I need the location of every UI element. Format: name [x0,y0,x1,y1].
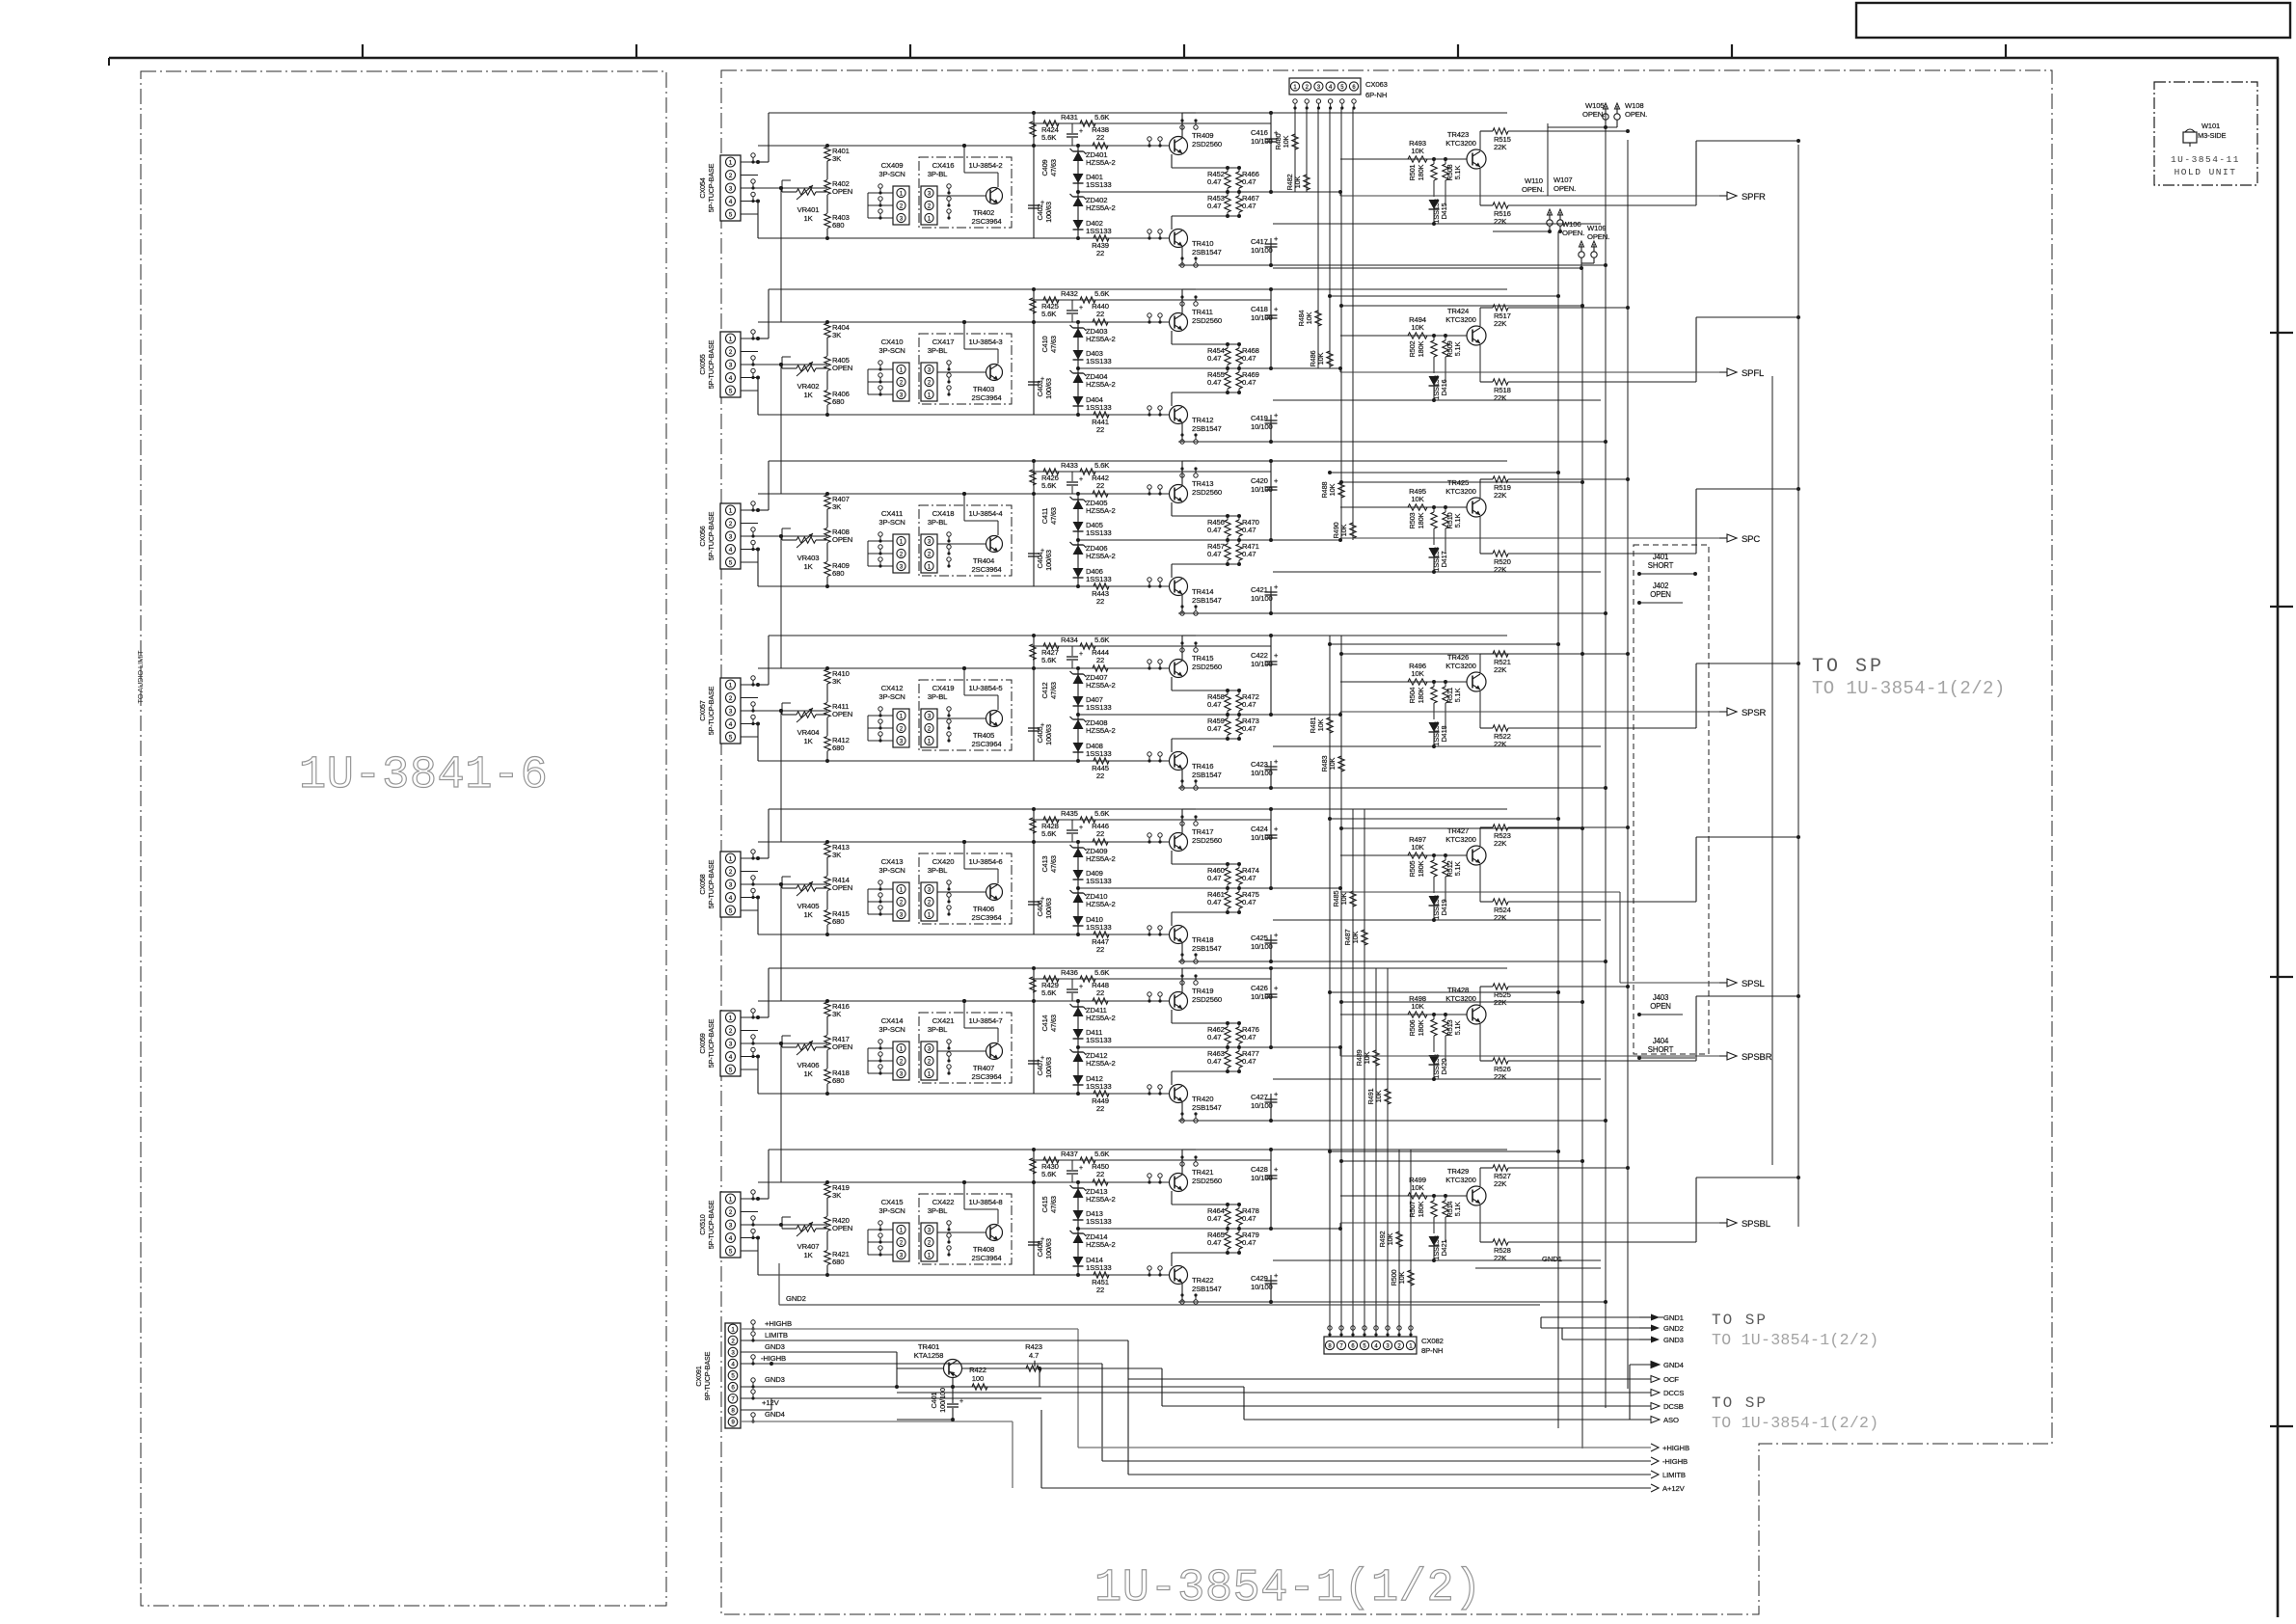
svg-text:GND3: GND3 [765,1342,785,1351]
svg-text:OCF: OCF [1663,1375,1679,1384]
mid vertical [1033,113,1035,238]
zener ZD405 HZS5A-2 [1073,500,1084,509]
svg-text:TR413: TR413 [1192,479,1213,488]
svg-text:R433: R433 [1061,461,1078,470]
collector wire up [1181,113,1183,137]
bus verticals to CX082 (start at rows 4-7) [1329,636,1331,1335]
diode D419 1SS133 [1433,889,1435,893]
svg-text:GND1: GND1 [1542,1255,1562,1263]
svg-text:KTC3200: KTC3200 [1445,662,1475,670]
svg-text:R437: R437 [1061,1150,1078,1158]
resistor R503 180K [1433,507,1435,512]
right bottom rail [1273,399,1601,401]
resistor R446 22 [1093,839,1108,845]
resistor R483 10K bus [1338,756,1344,771]
svg-text:22: 22 [1096,1286,1104,1294]
svg-text:4: 4 [729,547,733,554]
svg-text:680: 680 [832,917,844,926]
svg-text:-HIGHB: -HIGHB [761,1354,786,1363]
svg-text:5.6K: 5.6K [1041,829,1057,838]
svg-text:SPSL: SPSL [1742,979,1765,989]
svg-text:1: 1 [729,1015,733,1021]
wire pin3 inter-row link [780,1043,782,1182]
svg-text:OPEN.: OPEN. [1582,110,1605,119]
svg-text:KTC3200: KTC3200 [1445,994,1475,1003]
resistor R451 22 [1094,1272,1109,1278]
svg-text:HZS5A-2: HZS5A-2 [1086,203,1116,212]
emitter step top [1171,1010,1173,1023]
svg-text:3: 3 [729,1041,733,1047]
svg-text:10/100: 10/100 [1251,485,1273,494]
sub-board dashed box CX420 1U-3854-6 [919,853,1012,924]
svg-text:1K: 1K [803,562,813,571]
main unit dashed box 1U-3854-1 [721,70,2052,1614]
mid vertical [1033,636,1035,761]
svg-text:6P-NH: 6P-NH [1365,91,1387,99]
resistor R438 22 [1093,143,1108,149]
svg-text:1: 1 [729,507,733,514]
svg-text:R432: R432 [1061,289,1078,298]
diode D403 1SS133 [1073,350,1084,360]
svg-text:1SS133: 1SS133 [1086,528,1111,537]
collector wire down [1181,1102,1183,1121]
svg-text:C412: C412 [1040,682,1049,698]
resistor R449 22 [1094,1091,1109,1096]
svg-text:10K: 10K [1386,1232,1394,1245]
emitter step top [1171,154,1173,168]
svg-text:1U-3841-6: 1U-3841-6 [299,750,548,801]
svg-text:0.47: 0.47 [1242,1033,1256,1042]
svg-text:CX510: CX510 [698,1214,707,1234]
transistor TR404 2SC3964 [986,536,1003,553]
svg-text:5: 5 [729,211,733,218]
resistor R457 0.47 [1225,544,1230,560]
sub-board dashed box CX421 1U-3854-7 [919,1013,1012,1083]
svg-text:3P-SCN: 3P-SCN [878,866,905,875]
wire pin3 inter-row link [780,884,782,1001]
svg-text:W106: W106 [1562,220,1580,229]
diode D409 1SS133 [1073,870,1084,880]
svg-text:C401: C401 [930,1392,938,1408]
potentiometer VR402 1K [797,365,816,371]
svg-text:KTC3200: KTC3200 [1445,487,1475,496]
svg-text:TR419: TR419 [1192,987,1213,995]
svg-text:TR414: TR414 [1192,587,1214,596]
svg-text:1U-3854-11: 1U-3854-11 [2171,154,2240,165]
svg-text:CX056: CX056 [698,526,707,546]
resistor R454 0.47 [1225,348,1230,365]
resistor R467 0.47 [1236,196,1242,212]
diode D414 1SS133 [1073,1257,1084,1266]
resistor R464 0.47 [1225,1208,1230,1225]
bottom rail extension [1271,1301,1606,1303]
svg-text:CX063: CX063 [1365,80,1388,89]
svg-text:+: + [1040,200,1044,206]
svg-text:J403: J403 [1653,993,1668,1002]
svg-text:5.1K: 5.1K [1453,688,1462,702]
svg-text:LIMITB: LIMITB [765,1331,788,1340]
wire pin1 to top bus [768,289,770,338]
mid vertical [1033,968,1035,1094]
svg-text:10/100: 10/100 [1251,137,1273,146]
svg-text:1U-3854-8: 1U-3854-8 [969,1198,1003,1206]
emitter step top [1171,1191,1173,1204]
svg-text:TR402: TR402 [973,208,994,217]
svg-text:10/100: 10/100 [1251,992,1273,1001]
svg-text:22: 22 [1096,945,1104,954]
resistor R516 22K [1479,169,1481,205]
resistor R506 180K [1433,1015,1435,1019]
J-box dashed [1634,545,1709,1054]
emitter step bottom [1171,216,1173,230]
svg-text:R434: R434 [1061,636,1079,644]
svg-text:TR416: TR416 [1192,762,1213,771]
right bottom rail [1273,745,1601,747]
bus link wires [1330,643,1558,645]
resistor R444 22 [1093,665,1108,671]
svg-text:C421: C421 [1251,585,1268,594]
emitter step top [1171,331,1173,344]
svg-text:10/100: 10/100 [1251,313,1273,322]
resistor R498 10K [1340,1014,1467,1015]
diode D407 1SS133 [1073,696,1084,706]
GND2 rail [779,1304,1540,1306]
resistor R468 0.47 [1236,348,1242,365]
capacitor C422 10/100 [1270,636,1272,715]
resistor R491 10K bus [1385,1089,1391,1104]
svg-text:180K: 180K [1417,512,1425,528]
svg-text:180K: 180K [1417,164,1425,180]
resistor R452 0.47 [1225,172,1230,188]
wires to 3P-SCN [868,1229,893,1231]
svg-text:C419: C419 [1251,414,1268,422]
svg-text:3: 3 [729,533,733,540]
svg-text:C409: C409 [1040,159,1049,176]
svg-text:2SD2560: 2SD2560 [1192,836,1222,845]
svg-text:2: 2 [729,869,733,876]
resistor R450 22 [1093,1179,1108,1185]
resistor R523 22K [1479,827,1481,846]
resistor R402 OPEN [824,180,830,195]
resistor R441 22 [1094,412,1109,418]
sub-board dashed box CX418 1U-3854-4 [919,505,1012,576]
svg-text:KTC3200: KTC3200 [1445,835,1475,844]
diode D413 1SS133 [1073,1210,1084,1220]
resistor R522 22K [1479,691,1481,728]
svg-text:1SS133: 1SS133 [1086,575,1111,583]
resistor R419 3K [826,1182,828,1183]
svg-text:1: 1 [729,1196,733,1203]
mid output line [1078,1046,1340,1048]
resistor R481 10K bus [1327,717,1333,733]
resistor R437 5.6K on lineB [1032,1159,1271,1161]
svg-text:2SC3964: 2SC3964 [971,1072,1002,1081]
svg-text:TO 1U-3854-1(2/2): TO 1U-3854-1(2/2) [1712,1414,1878,1432]
svg-text:C425: C425 [1251,934,1268,942]
svg-text:3P-BL: 3P-BL [928,866,948,875]
feedback corner wire [1695,489,1697,554]
svg-text:22: 22 [1096,310,1104,318]
svg-text:SHORT: SHORT [1648,561,1674,570]
svg-text:2SC3964: 2SC3964 [971,565,1002,574]
svg-text:3P-SCN: 3P-SCN [878,1206,905,1215]
resistor R456 0.47 [1225,520,1230,536]
svg-text:100: 100 [972,1374,984,1383]
svg-text:TR404: TR404 [973,556,995,565]
svg-text:5.6K: 5.6K [1094,809,1110,818]
mid output line [1078,714,1340,716]
resistor R509 5.1K [1445,336,1446,340]
svg-text:5.6K: 5.6K [1094,289,1110,298]
svg-text:D419: D419 [1440,899,1448,915]
svg-text:5.6K: 5.6K [1094,968,1110,977]
diode D408 1SS133 [1073,743,1084,752]
svg-text:2SD2560: 2SD2560 [1192,488,1222,497]
transistor TR411 2SD2560 [1170,313,1188,332]
diode D416 1SS133 [1433,369,1435,373]
svg-text:TR425: TR425 [1447,478,1469,487]
svg-text:C416: C416 [1251,128,1268,137]
svg-text:5P-TUCP-BASE: 5P-TUCP-BASE [707,163,716,212]
svg-text:+: + [1079,825,1083,831]
svg-text:0.47: 0.47 [1207,177,1221,186]
diode ladder vertical [1077,494,1079,586]
emitter step bottom [1171,739,1173,752]
wire pin4 to bottom bus [757,202,759,239]
zener ZD407 HZS5A-2 [1073,674,1084,684]
svg-text:VR406: VR406 [797,1061,820,1069]
jumper W109 OPEN [1557,220,1563,226]
resistor R411 OPEN [824,703,830,717]
svg-text:1U-3854-3: 1U-3854-3 [969,338,1003,346]
resistor R442 22 [1093,491,1108,497]
resistor R422 100 [953,1386,973,1388]
resistor R528 22K [1479,1205,1481,1242]
svg-text:R505: R505 [1408,860,1417,877]
svg-text:C428: C428 [1251,1165,1268,1174]
svg-text:+HIGHB: +HIGHB [765,1319,792,1328]
svg-text:GND3: GND3 [765,1375,785,1384]
transistor TR417 2SD2560 [1170,833,1188,852]
svg-text:0.47: 0.47 [1207,526,1221,534]
title block box top-right [1856,3,2290,38]
svg-text:680: 680 [832,1076,844,1085]
CX063 connector [1289,78,1361,95]
svg-text:680: 680 [832,221,844,230]
jumper W108 OPEN [1614,114,1620,120]
svg-text:1K: 1K [803,1069,813,1078]
svg-text:3P-SCN: 3P-SCN [878,1025,905,1034]
CX082 pin stubs [1328,1326,1332,1330]
svg-text:D415: D415 [1440,203,1448,219]
svg-text:OPEN: OPEN [832,1042,852,1051]
svg-text:10K: 10K [1397,1271,1406,1284]
svg-text:5.1K: 5.1K [1453,341,1462,356]
svg-text:HZS5A-2: HZS5A-2 [1086,335,1116,343]
svg-text:10K: 10K [1316,352,1325,365]
svg-text:HZS5A-2: HZS5A-2 [1086,1195,1116,1204]
svg-text:22K: 22K [1494,393,1507,402]
connector pin stubs [741,1016,758,1018]
svg-text:CX412: CX412 [881,684,904,692]
svg-text:10K: 10K [1282,135,1290,148]
diode ladder vertical [1077,146,1079,238]
collector wire down [1181,770,1183,788]
page border top [109,57,2279,60]
bus link wires [1330,1150,1558,1152]
wire top bus lineA [769,288,1271,290]
svg-text:C417: C417 [1251,237,1268,246]
zener ZD401 HZS5A-2 [1073,151,1084,161]
svg-text:C411: C411 [1040,508,1049,525]
svg-text:TR405: TR405 [973,731,994,740]
wire bottom bus lineE [758,760,1170,762]
signal arrows HIGHB LIMITB A12V [1651,1444,1659,1451]
svg-text:0.47: 0.47 [1242,1057,1256,1066]
resistor R466 0.47 [1236,172,1242,188]
svg-text:CX059: CX059 [698,1033,707,1053]
svg-text:+: + [959,1398,963,1405]
svg-text:TR423: TR423 [1447,130,1469,139]
emitter step top [1171,677,1173,690]
diode ladder vertical [1077,322,1079,415]
wire pin3 inter-row link [758,1224,827,1226]
svg-text:TR403: TR403 [973,385,994,393]
resistor R453 0.47 [1225,196,1230,212]
connector CX091 9P-TUCP-BASE [725,1323,741,1428]
svg-text:1SS133: 1SS133 [1086,403,1111,412]
potentiometer VR405 1K [797,885,816,891]
svg-text:3P-SCN: 3P-SCN [878,346,905,355]
zener ZD413 HZS5A-2 [1073,1188,1084,1198]
svg-text:GND4: GND4 [765,1410,786,1419]
svg-text:100/63: 100/63 [1044,202,1053,223]
resistor R440 22 [1093,319,1108,325]
right bottom rail [1273,1259,1601,1261]
svg-text:22K: 22K [1494,565,1507,574]
svg-text:22K: 22K [1494,1072,1507,1081]
svg-text:1SS133: 1SS133 [1086,703,1111,712]
svg-text:10/100: 10/100 [1251,1101,1273,1110]
svg-text:1: 1 [729,855,733,862]
svg-text:C429: C429 [1251,1274,1268,1283]
svg-text:CX421: CX421 [932,1016,955,1025]
resistor R518 22K [1479,345,1481,382]
svg-text:4: 4 [729,721,733,728]
wire bottom bus lineE [758,414,1170,416]
svg-text:0.47: 0.47 [1242,354,1256,363]
svg-text:5.6K: 5.6K [1094,461,1110,470]
svg-text:680: 680 [832,1258,844,1266]
svg-text:2SB1547: 2SB1547 [1192,1285,1222,1293]
emitter step bottom [1171,392,1173,406]
zener ZD412 HZS5A-2 [1073,1052,1084,1062]
collector wire up [1181,636,1183,660]
svg-text:3K: 3K [832,1010,842,1018]
bottom rail lineF [1178,1120,1271,1122]
resistor R433 5.6K on lineB [1032,471,1271,473]
diode D404 1SS133 [1073,396,1084,406]
zener ZD406 HZS5A-2 [1073,545,1084,555]
svg-text:0.47: 0.47 [1207,354,1221,363]
svg-text:C415: C415 [1040,1196,1049,1212]
transistor TR429 KTC3200 [1467,1186,1486,1205]
resistor R416 3K [826,1001,828,1002]
signal arrows GND4 OCF DCCS DCSB ASO [1651,1362,1660,1368]
connector pin stubs [741,1198,758,1200]
svg-text:2SB1547: 2SB1547 [1192,771,1222,779]
resistor R459 0.47 [1225,718,1230,735]
base feed lineC [758,841,1170,843]
svg-text:D420: D420 [1440,1058,1448,1074]
svg-text:3P-BL: 3P-BL [928,518,948,527]
bottom rail lineF [1178,264,1271,266]
diode ladder vertical [1077,842,1079,934]
svg-text:0.47: 0.47 [1242,378,1256,387]
connector CX058 5P-TUCP-BASE [720,852,741,917]
svg-text:HZS5A-2: HZS5A-2 [1086,380,1116,389]
svg-text:SPFL: SPFL [1742,368,1764,379]
resistor R479 0.47 [1236,1232,1242,1249]
resistor R500 10K bus [1408,1270,1414,1286]
svg-text:R501: R501 [1408,164,1417,180]
resistor R520 22K [1479,517,1481,554]
capacitor C417 10/100 [1270,238,1272,265]
resistor R461 0.47 [1225,892,1230,908]
transistor TR419 2SD2560 [1170,992,1188,1011]
capacitor C416 10/100 [1270,113,1272,192]
svg-text:22: 22 [1096,771,1104,780]
svg-text:2: 2 [729,521,733,528]
svg-text:OPEN.: OPEN. [1522,185,1544,194]
svg-text:TR418: TR418 [1192,935,1213,944]
svg-text:+: + [1040,722,1044,729]
svg-text:1K: 1K [803,910,813,919]
svg-text:5.6K: 5.6K [1094,1150,1110,1158]
capacitor C424 10/100 [1270,809,1272,888]
svg-text:100/63: 100/63 [1044,550,1053,571]
svg-text:OPEN: OPEN [832,535,852,544]
svg-text:LIMITB: LIMITB [1662,1471,1686,1479]
bottom rail extension [1271,441,1606,443]
output SPC [1339,538,1341,540]
svg-text:1SS133: 1SS133 [1086,1217,1111,1226]
right bottom rail [1273,571,1601,573]
svg-text:3K: 3K [832,502,842,511]
collector wire up [1181,809,1183,833]
resistor R475 0.47 [1236,892,1242,908]
capacitor C429 10/100 [1270,1275,1272,1302]
svg-text:3K: 3K [832,851,842,859]
svg-text:CX409: CX409 [881,161,904,170]
sub-board dashed box CX419 1U-3854-5 [919,680,1012,750]
svg-text:GND2: GND2 [786,1294,806,1303]
svg-text:180K: 180K [1417,340,1425,357]
capacitor C427 10/100 [1270,1094,1272,1121]
svg-text:C413: C413 [1040,855,1049,872]
resistor R469 0.47 [1236,372,1242,389]
bottom rail extension [1271,1120,1606,1122]
transistor TR409 2SD2560 [1170,137,1188,155]
svg-text:680: 680 [832,744,844,752]
potentiometer VR403 1K [797,537,816,543]
svg-text:100/63: 100/63 [1044,1057,1053,1078]
resistor R463 0.47 [1225,1051,1230,1068]
svg-text:TR411: TR411 [1192,308,1213,316]
bottom rail lineF [1178,1301,1271,1303]
wire pin1 to top bus [768,461,770,510]
resistor R474 0.47 [1236,868,1242,884]
